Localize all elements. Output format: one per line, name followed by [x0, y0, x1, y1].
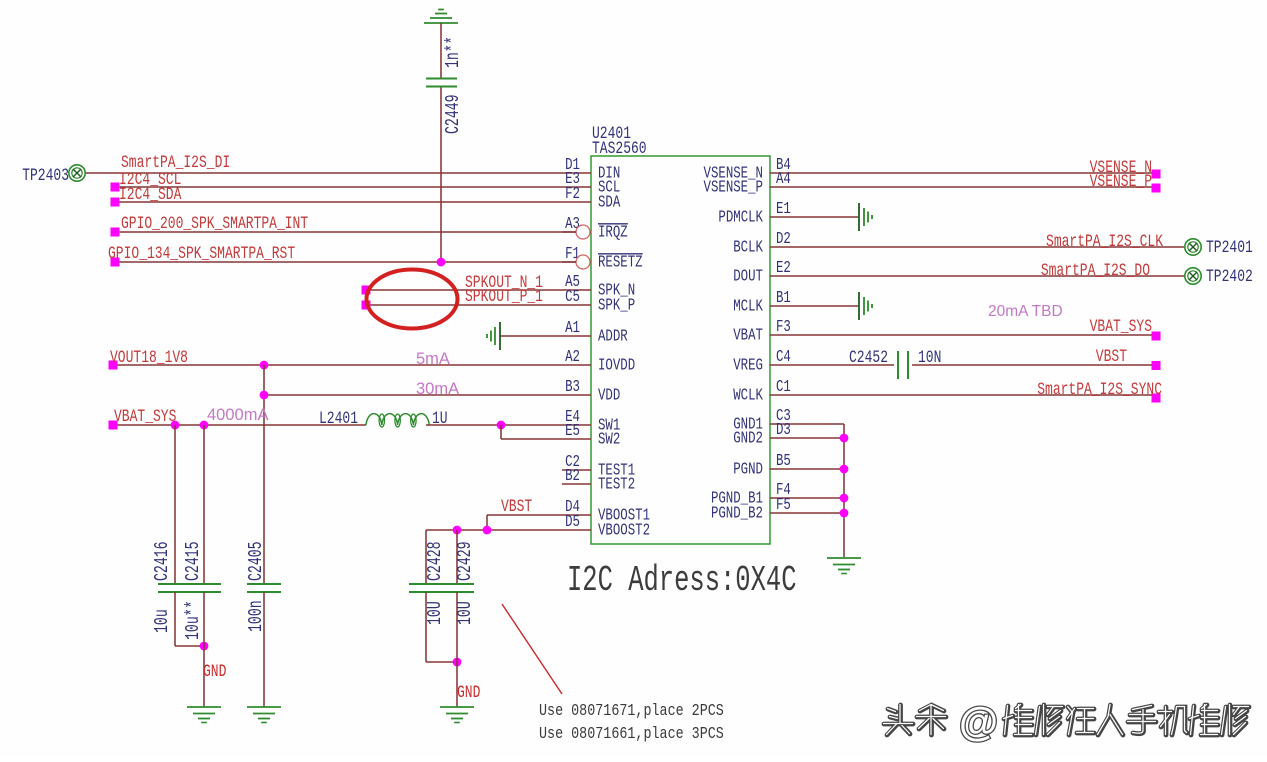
svg-text:GPIO_200_SPK_SMARTPA_INT: GPIO_200_SPK_SMARTPA_INT: [121, 213, 308, 233]
svg-text:SDA: SDA: [598, 194, 620, 212]
svg-text:VBST: VBST: [1096, 346, 1127, 366]
svg-text:F5: F5: [776, 496, 791, 514]
svg-text:1n**: 1n**: [442, 36, 464, 68]
svg-text:C2449: C2449: [442, 94, 464, 134]
svg-text:SmartPA_I2S_CLK: SmartPA_I2S_CLK: [1046, 231, 1164, 251]
svg-text:B5: B5: [776, 452, 791, 470]
svg-text:SPKOUT_P_1: SPKOUT_P_1: [465, 286, 543, 306]
svg-text:L2401: L2401: [319, 408, 358, 428]
svg-text:10U: 10U: [424, 601, 446, 625]
svg-text:F2: F2: [565, 185, 580, 203]
svg-text:C2428: C2428: [424, 541, 446, 581]
svg-text:C2415: C2415: [182, 541, 204, 581]
svg-text:SPK_P: SPK_P: [598, 297, 635, 315]
svg-text:VBOOST2: VBOOST2: [598, 522, 650, 540]
svg-text:B2: B2: [565, 467, 580, 485]
svg-text:VBAT_SYS: VBAT_SYS: [1090, 316, 1152, 336]
svg-text:10u**: 10u**: [182, 600, 204, 640]
svg-text:4000mA: 4000mA: [207, 406, 268, 424]
svg-text:A1: A1: [565, 319, 580, 337]
svg-text:SmartPA_I2S_SYNC: SmartPA_I2S_SYNC: [1037, 379, 1162, 399]
svg-text:F3: F3: [776, 318, 791, 336]
svg-text:C2452: C2452: [849, 347, 888, 367]
svg-text:IOVDD: IOVDD: [598, 357, 635, 375]
svg-text:GND: GND: [457, 682, 480, 702]
svg-text:D3: D3: [776, 421, 791, 439]
svg-text:TEST2: TEST2: [598, 476, 635, 494]
svg-text:VBAT: VBAT: [733, 327, 763, 345]
svg-text:SmartPA_I2S_DO: SmartPA_I2S_DO: [1041, 260, 1150, 280]
svg-text:TP2402: TP2402: [1206, 266, 1253, 286]
svg-text:C2405: C2405: [245, 541, 267, 581]
svg-text:VBST: VBST: [501, 496, 532, 516]
svg-text:PGND_B2: PGND_B2: [711, 505, 763, 523]
svg-text:E1: E1: [776, 200, 791, 218]
svg-text:VREG: VREG: [733, 357, 763, 375]
svg-text:GND: GND: [203, 661, 226, 681]
svg-text:PDMCLK: PDMCLK: [718, 209, 763, 227]
svg-text:D5: D5: [565, 513, 580, 531]
svg-text:A4: A4: [776, 170, 791, 188]
svg-text:ADDR: ADDR: [598, 328, 628, 346]
svg-text:DOUT: DOUT: [733, 268, 763, 286]
svg-text:WCLK: WCLK: [733, 387, 763, 405]
svg-text:GPIO_134_SPK_SMARTPA_RST: GPIO_134_SPK_SMARTPA_RST: [108, 243, 295, 263]
svg-text:VDD: VDD: [598, 387, 620, 405]
svg-text:I2C Adress:0X4C: I2C Adress:0X4C: [567, 561, 796, 601]
svg-text:TAS2560: TAS2560: [592, 138, 647, 158]
svg-text:10U: 10U: [454, 601, 476, 625]
svg-text:100n: 100n: [245, 600, 267, 632]
svg-text:MCLK: MCLK: [733, 298, 763, 316]
svg-text:RESETZ: RESETZ: [598, 254, 643, 272]
svg-text:VSENSE_P: VSENSE_P: [704, 179, 764, 197]
svg-text:C2416: C2416: [151, 541, 173, 581]
svg-text:E2: E2: [776, 259, 791, 277]
svg-text:VBAT_SYS: VBAT_SYS: [114, 406, 176, 426]
svg-text:VOUT18_1V8: VOUT18_1V8: [110, 347, 188, 367]
svg-text:20mA TBD: 20mA TBD: [988, 303, 1063, 320]
svg-text:B3: B3: [565, 378, 580, 396]
svg-text:30mA: 30mA: [416, 380, 459, 398]
svg-text:GND2: GND2: [733, 430, 763, 448]
svg-text:Use 08071671,place 2PCS: Use 08071671,place 2PCS: [539, 701, 724, 721]
svg-text:B1: B1: [776, 289, 791, 307]
svg-text:C1: C1: [776, 378, 791, 396]
svg-text:TP2401: TP2401: [1206, 237, 1253, 257]
svg-text:D2: D2: [776, 230, 791, 248]
svg-text:IRQZ: IRQZ: [598, 224, 628, 242]
svg-text:@: @: [959, 700, 998, 744]
svg-text:BCLK: BCLK: [733, 239, 763, 257]
svg-text:PGND: PGND: [733, 461, 763, 479]
svg-text:5mA: 5mA: [416, 350, 450, 368]
svg-text:SW2: SW2: [598, 431, 620, 449]
svg-text:TP2403: TP2403: [22, 165, 69, 185]
svg-text:10u: 10u: [151, 609, 173, 633]
svg-text:I2C4_SDA: I2C4_SDA: [119, 184, 182, 204]
svg-text:C2429: C2429: [454, 541, 476, 581]
svg-text:VSENSE_P: VSENSE_P: [1090, 171, 1152, 191]
svg-text:A2: A2: [565, 348, 580, 366]
svg-text:Use 08071661,place 3PCS: Use 08071661,place 3PCS: [539, 724, 724, 744]
svg-text:C5: C5: [565, 288, 580, 306]
svg-text:E5: E5: [565, 422, 580, 440]
svg-text:C4: C4: [776, 348, 791, 366]
svg-text:10N: 10N: [918, 347, 941, 367]
